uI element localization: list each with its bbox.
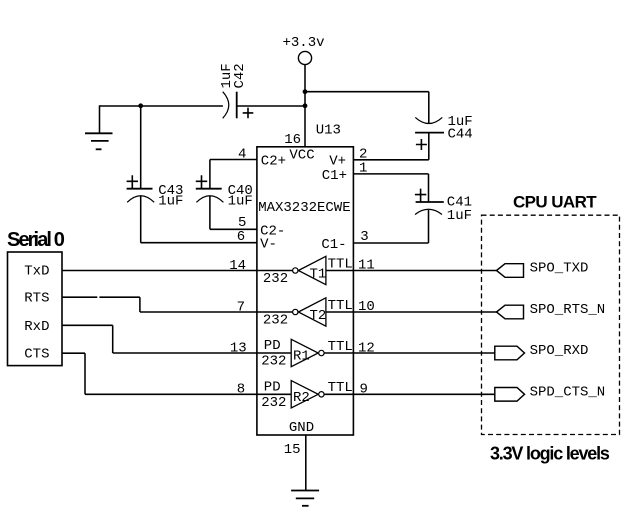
wire	[324, 393, 353, 395]
connector Serial 0	[8, 252, 63, 366]
svg-text:1uF: 1uF	[228, 193, 253, 209]
capacitor C41	[416, 201, 444, 203]
wire CTS	[62, 352, 85, 354]
svg-text:232: 232	[263, 313, 288, 329]
svg-text:6: 6	[237, 229, 245, 245]
wire	[257, 311, 293, 313]
power +3.3v	[298, 51, 311, 64]
svg-text:T2: T2	[310, 308, 327, 324]
svg-text:Serial 0: Serial 0	[7, 229, 65, 251]
svg-text:3: 3	[360, 229, 368, 245]
svg-text:1: 1	[359, 161, 367, 177]
wire	[210, 159, 257, 161]
ground	[291, 490, 319, 492]
svg-text:12: 12	[358, 340, 375, 356]
svg-text:CPU UART: CPU UART	[513, 193, 597, 212]
svg-text:8: 8	[237, 382, 245, 398]
svg-text:TxD: TxD	[24, 264, 49, 280]
wire	[353, 173, 428, 175]
svg-text:13: 13	[230, 340, 247, 356]
svg-text:SPO_RXD: SPO_RXD	[530, 343, 589, 359]
wire	[257, 393, 291, 395]
wire	[209, 160, 211, 189]
wire pin13	[113, 352, 257, 354]
wire	[326, 270, 354, 272]
wire pin10	[353, 311, 497, 313]
svg-text:MAX3232ECWE: MAX3232ECWE	[258, 200, 350, 216]
receiver R2	[291, 381, 318, 408]
svg-text:RTS: RTS	[24, 291, 49, 307]
wire	[100, 105, 223, 107]
wire	[141, 242, 257, 244]
wire pin11	[353, 270, 497, 272]
wire pin12	[353, 352, 495, 354]
wire pin9	[353, 393, 495, 395]
port SPD_CTS_N	[495, 388, 525, 402]
svg-text:V-: V-	[260, 237, 277, 253]
svg-text:C42: C42	[232, 63, 248, 88]
port SPO_RTS_N	[497, 305, 524, 319]
svg-text:RxD: RxD	[24, 319, 49, 335]
svg-text:1uF: 1uF	[447, 208, 472, 224]
svg-text:3.3V logic levels: 3.3V logic levels	[490, 444, 610, 464]
svg-text:15: 15	[284, 442, 301, 458]
svg-text:R1: R1	[293, 349, 310, 365]
wire	[140, 106, 142, 189]
wire pin8	[85, 393, 257, 395]
wire	[210, 228, 257, 230]
wire RxD	[62, 324, 113, 326]
wire	[324, 352, 353, 354]
wire	[209, 196, 211, 229]
svg-text:T1: T1	[310, 267, 327, 283]
wire	[140, 196, 142, 243]
svg-text:GND: GND	[289, 420, 314, 436]
svg-text:C44: C44	[448, 127, 473, 143]
svg-text:14: 14	[229, 258, 246, 274]
wire	[305, 91, 429, 93]
wire	[428, 133, 430, 160]
svg-text:V+: V+	[329, 153, 346, 169]
svg-text:232: 232	[261, 395, 286, 411]
wire	[237, 105, 305, 107]
capacitor C43	[127, 188, 153, 190]
svg-text:1uF: 1uF	[158, 193, 183, 209]
svg-text:232: 232	[263, 271, 288, 287]
capacitor C42	[223, 92, 229, 119]
wire TxD to pin14	[62, 270, 257, 272]
capacitor C44	[415, 117, 442, 123]
svg-text:PD: PD	[264, 379, 281, 395]
svg-text:2: 2	[359, 147, 367, 163]
svg-text:C2+: C2+	[261, 153, 286, 169]
svg-text:PD: PD	[264, 338, 281, 354]
svg-text:16: 16	[284, 132, 301, 148]
svg-text:+3.3v: +3.3v	[282, 35, 324, 51]
op-amp U13 MAX3232ECWE body	[257, 147, 354, 435]
svg-text:4: 4	[238, 147, 246, 163]
transmitter T2	[293, 309, 298, 314]
port SPO_TXD	[497, 264, 524, 278]
wire	[326, 311, 354, 313]
svg-text:CTS: CTS	[24, 347, 49, 363]
wire	[428, 210, 430, 243]
receiver R1	[291, 339, 318, 366]
svg-text:SPO_RTS_N: SPO_RTS_N	[530, 302, 606, 318]
svg-text:7: 7	[237, 299, 245, 315]
capacitor C40	[196, 188, 222, 190]
svg-text:SPD_CTS_N: SPD_CTS_N	[530, 385, 606, 401]
wire RTS seg	[62, 296, 97, 298]
svg-text:C1+: C1+	[322, 168, 347, 184]
svg-text:R2: R2	[293, 390, 310, 406]
node (junction at C43 tap)	[138, 103, 143, 108]
svg-text:VCC: VCC	[289, 148, 314, 164]
port SPO_RXD	[495, 346, 525, 360]
svg-text:232: 232	[261, 354, 286, 370]
transmitter T1	[293, 268, 298, 273]
node	[303, 89, 308, 94]
svg-text:U13: U13	[316, 123, 341, 139]
wire	[257, 352, 291, 354]
wire	[304, 65, 306, 147]
node	[303, 103, 308, 108]
svg-text:C1-: C1-	[321, 237, 346, 253]
dashed box CPU UART	[482, 215, 620, 434]
wire RTS seg2	[99, 296, 139, 298]
ground	[99, 105, 101, 133]
svg-text:SPO_TXD: SPO_TXD	[530, 261, 589, 277]
wire	[305, 435, 307, 491]
wire	[257, 270, 293, 272]
